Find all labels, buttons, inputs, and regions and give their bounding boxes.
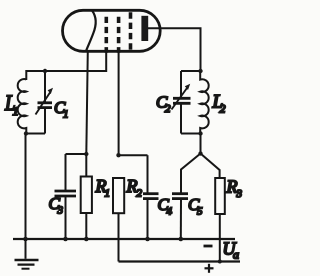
capacitor C1 (variable) xyxy=(44,71,46,102)
wire: tank bottom stub xyxy=(200,134,202,154)
svg-text:1: 1 xyxy=(105,188,111,200)
node: rail-tank junction xyxy=(23,237,28,242)
node: cathode net junction xyxy=(84,152,88,156)
svg-text:1: 1 xyxy=(13,104,19,118)
wire: Y to C5 xyxy=(181,154,201,194)
wire: plate lead to right tank xyxy=(148,28,201,71)
inductor L2 xyxy=(200,71,208,134)
capacitor C2 (variable) xyxy=(180,71,182,97)
svg-text:2: 2 xyxy=(220,102,226,116)
node: right tank bottom junction xyxy=(198,131,202,135)
svg-text:2: 2 xyxy=(165,103,171,115)
+ supply line xyxy=(119,260,241,262)
vacuum tube U1 envelope xyxy=(63,10,161,51)
svg-text:a: a xyxy=(233,248,239,262)
resistor R2 xyxy=(113,178,124,213)
grid 1 (dashed) xyxy=(105,17,109,53)
svg-text:5: 5 xyxy=(197,206,203,218)
svg-text:1: 1 xyxy=(63,109,69,121)
node: tank bottom junction xyxy=(24,131,28,135)
node: rail-R1 junction xyxy=(84,237,89,242)
ground xyxy=(25,239,27,259)
wire: grid2 lead down xyxy=(118,51,120,156)
resistor R1 xyxy=(85,154,87,177)
node: R3 to + line xyxy=(218,260,222,264)
wire: left tank lead to ground rail xyxy=(25,134,27,240)
node: Y junction xyxy=(198,151,202,155)
wire: tank top to grid1 lead xyxy=(26,51,106,81)
svg-text:3: 3 xyxy=(236,188,243,200)
capacitor C5 xyxy=(172,192,188,195)
wire: right tank bottom xyxy=(181,133,201,135)
wire: R2 lead to + line xyxy=(118,213,120,261)
inductor L1 xyxy=(18,79,27,133)
node: C1 top junction xyxy=(43,69,47,73)
resistor R3 xyxy=(215,178,225,214)
node: rail-C5 junction xyxy=(179,237,184,242)
anode plate (inside tube) xyxy=(141,16,148,41)
node: grid2 net junction xyxy=(116,153,120,157)
wire: group1 top xyxy=(66,153,87,155)
capacitor C4 xyxy=(147,155,149,193)
capacitor C3 xyxy=(65,154,67,190)
cathode (inside tube) xyxy=(86,11,95,51)
ground rail xyxy=(13,238,235,240)
grid 3 (dashed) xyxy=(129,12,133,52)
node: tank top junction xyxy=(198,69,202,73)
svg-text:3: 3 xyxy=(57,205,64,217)
svg-text:4: 4 xyxy=(167,206,173,218)
plus sign xyxy=(205,267,214,269)
node: rail-C3 junction xyxy=(63,237,68,242)
grid 2 (dashed) xyxy=(117,17,121,53)
minus sign xyxy=(204,245,213,248)
wire: group2 top xyxy=(119,154,148,156)
wire: cathode lead down xyxy=(86,51,88,155)
wire: right tank top xyxy=(181,70,201,72)
svg-text:2: 2 xyxy=(137,188,143,200)
wire: Y to R3 xyxy=(201,154,220,179)
node: rail-C4 junction xyxy=(145,237,150,242)
wire: left tank bottom xyxy=(26,133,46,135)
